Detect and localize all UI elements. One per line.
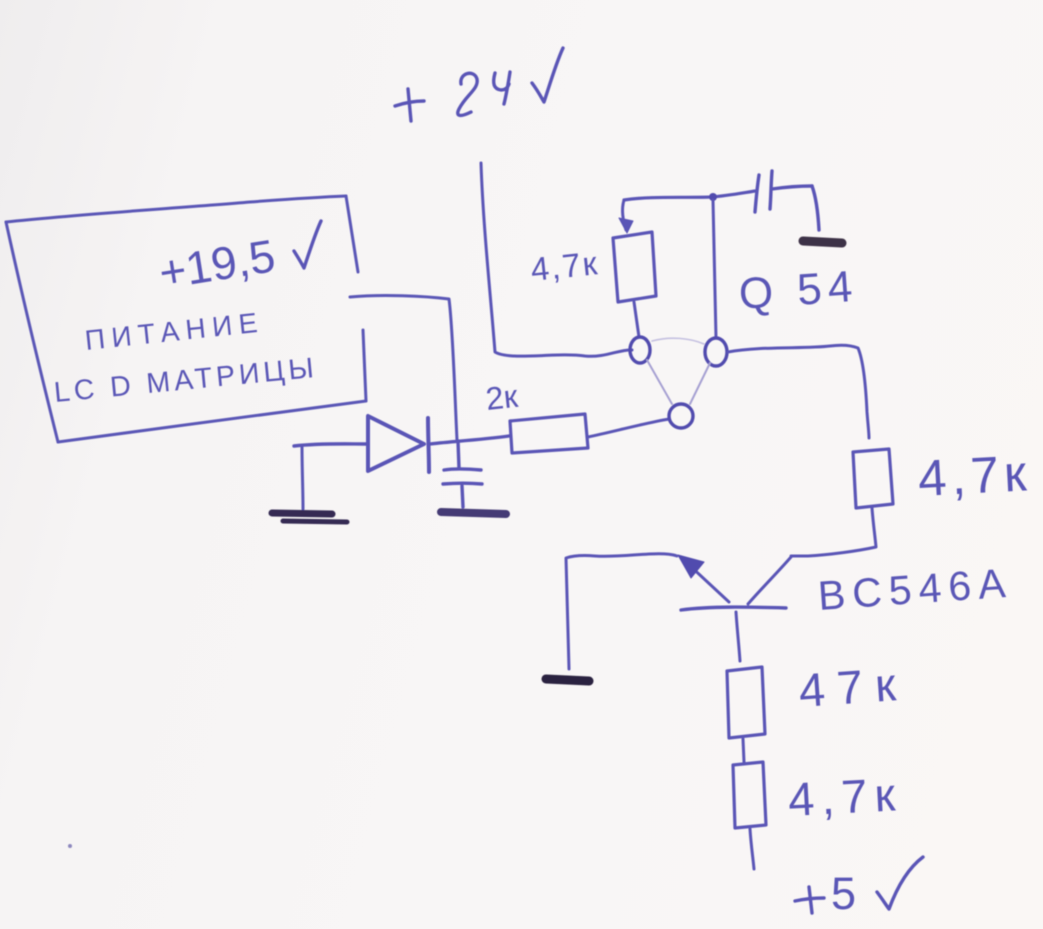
transistor Q54 collector pad [705, 338, 727, 366]
wire junction down to Q54 collector pad [713, 200, 716, 338]
svg-text:4,7к: 4,7к [529, 244, 601, 288]
svg-text:+19,5: +19,5 [155, 229, 278, 299]
wire with arrow into top 4.7k resistor [623, 200, 626, 230]
wire diode anode left [294, 444, 366, 446]
wire box output to diode/cap junction [350, 296, 457, 440]
node junction dot [709, 193, 717, 201]
wire to +5V [750, 829, 754, 869]
svg-text:ПИТАНИЕ: ПИТАНИЕ [83, 306, 265, 356]
svg-text:BC546A: BC546A [816, 560, 1013, 619]
resistor 4.7k top [613, 232, 656, 302]
ground left of diode [272, 513, 347, 522]
faint pad link left-right [652, 338, 704, 344]
svg-text:47к: 47к [797, 657, 909, 717]
transistor BC546A collector lead [748, 557, 791, 604]
wire emitter to ground [566, 554, 677, 669]
svg-text:2к: 2к [484, 378, 520, 417]
wire 2k to Q54 base pad [588, 419, 669, 437]
transistor BC546A emitter lead [687, 563, 729, 602]
svg-text:4,7к: 4,7к [787, 767, 904, 826]
wire base down to divider [736, 612, 740, 661]
wire +24V vertical down and right to Q54 emitter pad [481, 163, 632, 356]
diode D1 [294, 416, 509, 472]
transistor Q54 base pad [669, 404, 693, 428]
capacitor C2 top right [755, 171, 819, 230]
ground below capacitor C2 [803, 241, 842, 243]
svg-text:Q 54: Q 54 [737, 262, 860, 319]
faint pad link right-base [690, 363, 710, 404]
transistor BC546A base bar [681, 607, 786, 610]
svg-text:5: 5 [831, 868, 856, 919]
label +24V supply [395, 48, 563, 121]
emitter arrowhead [678, 555, 704, 578]
wire resistor down to collector [791, 508, 876, 556]
transistor Q54 emitter pad [630, 337, 650, 363]
wire Q54 collector pad to right [728, 345, 869, 438]
stray dot bottom left [68, 844, 72, 848]
capacitor C1 below junction [443, 441, 482, 507]
svg-text:4,7к: 4,7к [917, 444, 1033, 507]
checkmark of +19,5V [294, 221, 321, 268]
wire top rail from arrow to junction and capacitor [624, 191, 755, 200]
label +5V [795, 887, 824, 913]
resistor 2k [510, 414, 588, 453]
resistor 4.7k bottom [733, 762, 766, 828]
svg-text:LC D МАТРИЦЫ: LC D МАТРИЦЫ [53, 352, 319, 409]
resistor 47k [727, 667, 765, 738]
ground at emitter [546, 679, 589, 681]
resistor 4.7k right [853, 449, 893, 508]
checkmark of +5V [877, 857, 923, 909]
label +19,5V [155, 229, 278, 299]
wire to left ground [302, 446, 303, 509]
wire between divider resistors [743, 739, 744, 762]
box power LCD matrix [6, 196, 366, 442]
faint pad link left-base [647, 360, 672, 404]
ground below capacitor C1 [441, 512, 506, 514]
arrowhead into resistor [619, 218, 633, 233]
wire resistor to Q54 left pad [634, 302, 639, 337]
